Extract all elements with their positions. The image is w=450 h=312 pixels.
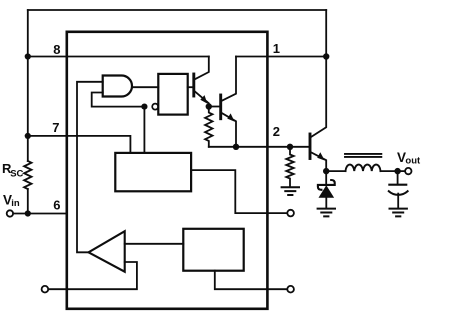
svg-text:6: 6: [53, 198, 60, 213]
node Vin junction: [25, 210, 31, 216]
wire switch node to inductor: [326, 170, 345, 172]
wire pin6 Vin line: [13, 213, 67, 215]
wire AND output to latch: [132, 86, 158, 88]
wire pin8 line: [28, 56, 209, 58]
wire Rsc to Vin node: [27, 189, 29, 214]
label pin 7: [52, 120, 59, 135]
wire oscillator output to pin3 terminal: [191, 170, 287, 213]
reference block: [183, 229, 243, 271]
wire pin1 line: [236, 56, 326, 58]
wire feedback junction to oscillator: [143, 107, 145, 153]
AND gate: [103, 76, 132, 97]
IC body MC34063: [67, 32, 268, 309]
ground diode: [318, 209, 335, 217]
node pin7 junction: [25, 133, 31, 139]
oscillator block: [115, 153, 191, 191]
label Vin: [3, 192, 20, 209]
terminal pin3 timing capacitor: [287, 210, 294, 217]
label Vout: [397, 150, 421, 167]
wire top supply rail: [28, 9, 326, 11]
node AND feedback junction: [141, 104, 147, 110]
svg-text:8: 8: [53, 42, 60, 57]
node Q1 emitter on pin2: [233, 144, 239, 150]
svg-text:SC: SC: [10, 169, 23, 180]
ground Q3 base resistor: [282, 187, 299, 195]
ground capacitor: [390, 209, 407, 217]
svg-text:1: 1: [273, 41, 280, 56]
wire inductor to Vout: [381, 170, 406, 172]
resistor Q3 base pulldown: [286, 147, 293, 187]
label pin 2: [273, 124, 280, 139]
wire comparator output to AND input 1: [77, 82, 103, 253]
wire reference output to pin4 terminal: [215, 271, 287, 290]
label pin 8: [53, 42, 60, 57]
wire pin2 line: [209, 146, 290, 148]
svg-text:out: out: [405, 155, 421, 166]
node Q3 base junction: [287, 144, 293, 150]
inverter bubble on latch input: [152, 104, 158, 110]
op-amp comparator U1: [89, 231, 125, 272]
terminal pin4 ground: [287, 286, 294, 293]
svg-text:2: 2: [273, 124, 280, 139]
inductor L1: [345, 154, 381, 171]
capacitor C output: [389, 171, 408, 208]
latch block: [158, 74, 187, 115]
wire top rail drop to Q3 collector: [325, 10, 327, 57]
wire Q1 base: [209, 106, 221, 108]
wire comparator input A (from reference): [125, 243, 184, 245]
transistor Q3 external switch: [290, 57, 326, 172]
node Q2 emitter / Q1 base junction: [206, 103, 212, 109]
terminal Vout: [405, 168, 411, 174]
transistor Q1 output switch: [221, 57, 236, 147]
label pin 6: [53, 198, 60, 213]
wire left supply drop upper (top rail to Rsc): [27, 10, 29, 161]
transistor Q2 driver: [194, 57, 209, 107]
wire AND input 2 loop: [92, 93, 142, 107]
label pin 1: [273, 41, 280, 56]
node pin8 junction: [25, 53, 31, 59]
wire pin7 line: [28, 136, 131, 153]
resistor Q1 base-emitter: [205, 107, 212, 147]
svg-text:in: in: [11, 198, 20, 209]
node pin1 junction: [323, 53, 329, 59]
svg-text:7: 7: [52, 120, 59, 135]
terminal Vin: [7, 210, 13, 216]
wire latch to Q2 base: [188, 86, 194, 88]
wire comparator input B (from pin5 terminal): [48, 262, 137, 289]
diode D1 catch schottky: [318, 171, 335, 208]
resistor RSC: [24, 161, 31, 189]
label RSC: [2, 161, 24, 180]
terminal pin5 comparator input: [42, 286, 49, 293]
node switch output junction: [323, 168, 329, 174]
node Vout junction: [394, 168, 400, 174]
